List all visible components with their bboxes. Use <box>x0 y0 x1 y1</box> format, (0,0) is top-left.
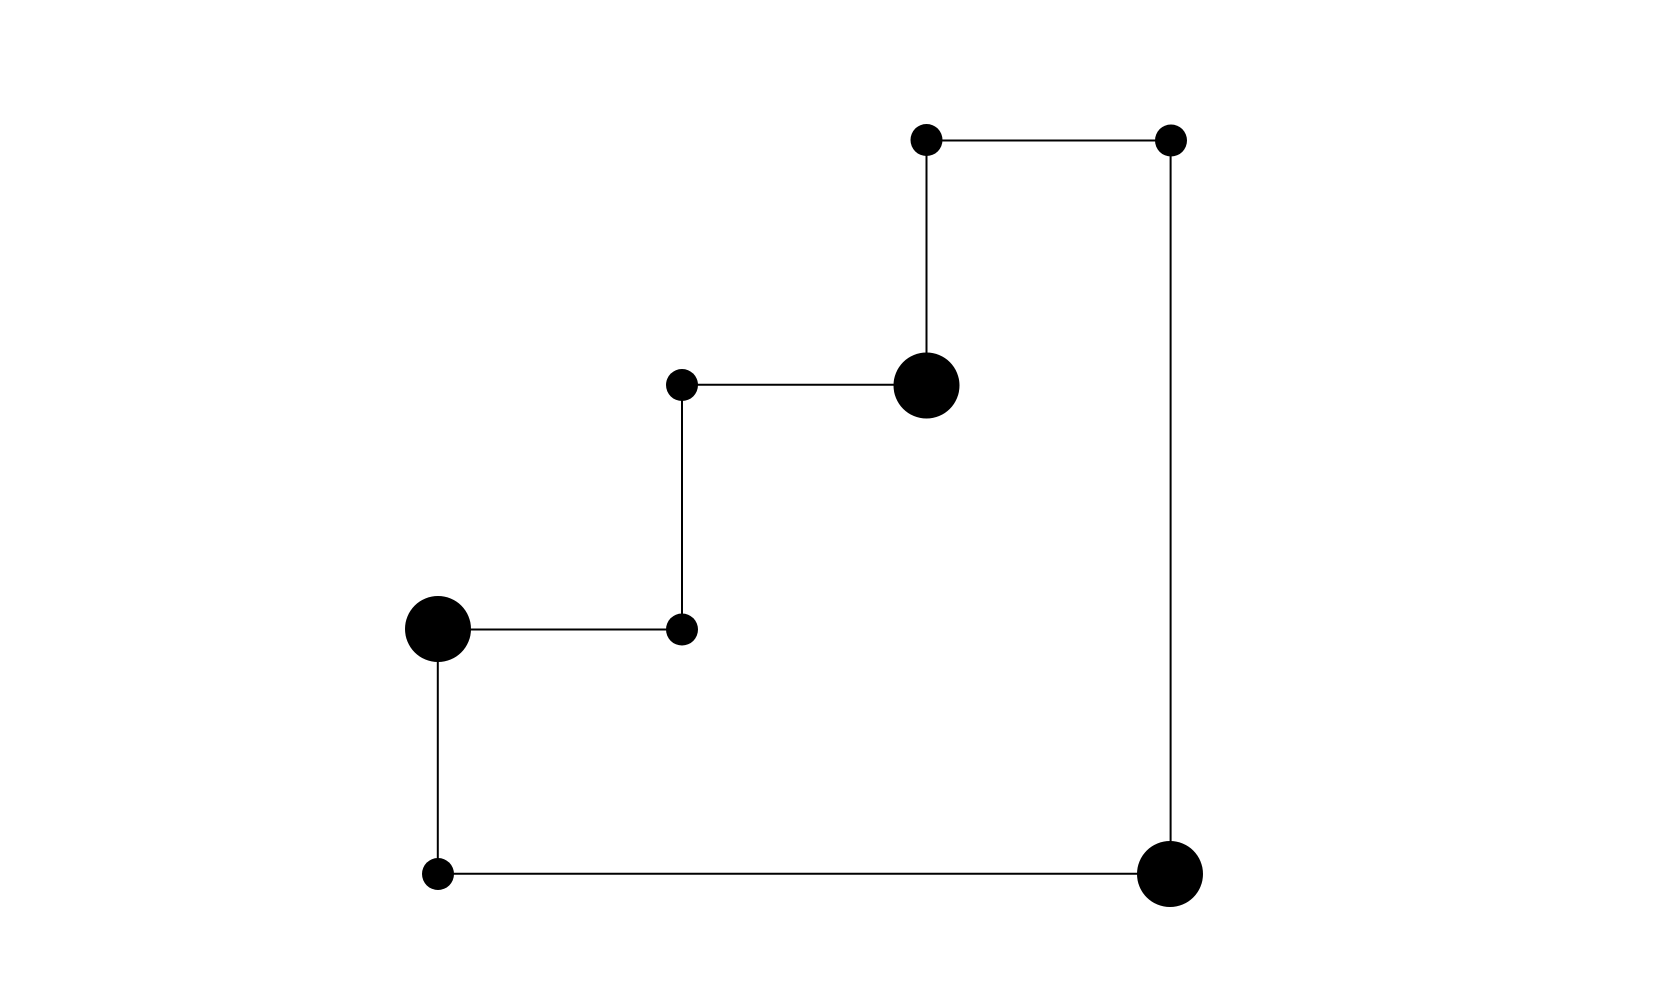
node A <box>911 124 943 156</box>
node H <box>1137 841 1203 907</box>
node D <box>666 369 698 401</box>
wire A-C <box>926 140 928 385</box>
wire D-E <box>681 385 683 630</box>
wire A-B <box>926 140 1171 142</box>
wire C-D <box>682 384 926 386</box>
wire F-G <box>437 629 439 874</box>
node G <box>422 858 454 890</box>
wire E-F <box>438 629 682 631</box>
node C <box>894 353 960 419</box>
wire B-H <box>1170 140 1172 874</box>
node B <box>1155 125 1187 157</box>
node E <box>666 614 698 646</box>
node F <box>405 596 471 662</box>
wire G-H <box>438 873 1170 875</box>
